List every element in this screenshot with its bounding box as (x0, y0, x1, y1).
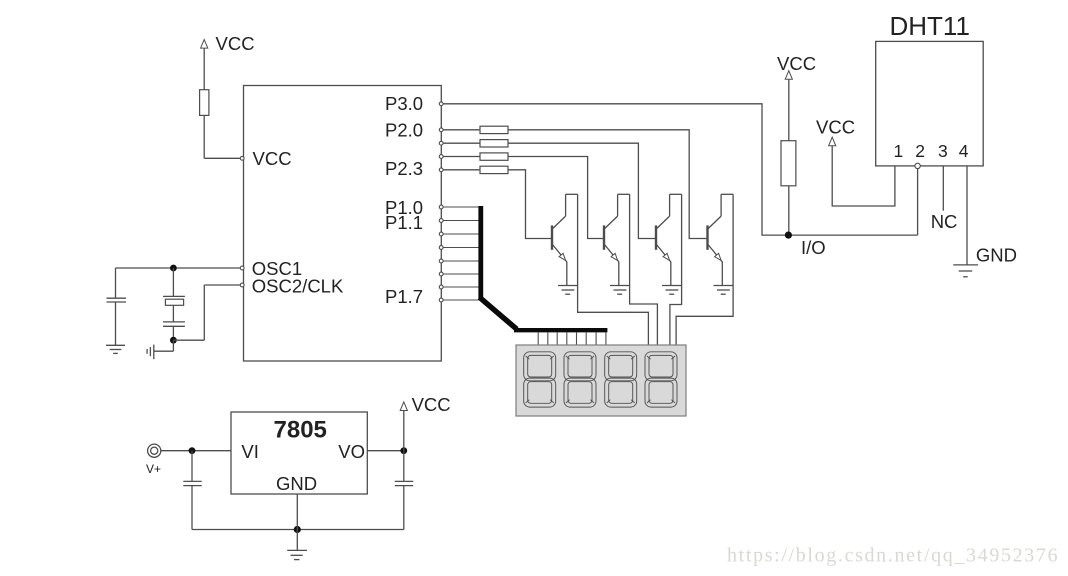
svg-text:4: 4 (959, 141, 969, 161)
svg-text:P2.0: P2.0 (385, 119, 423, 140)
svg-text:DHT11: DHT11 (890, 11, 970, 41)
svg-text:VO: VO (338, 441, 365, 462)
svg-text:P3.0: P3.0 (385, 93, 423, 114)
svg-text:VCC: VCC (816, 116, 855, 137)
svg-text:1: 1 (894, 141, 904, 161)
svg-text:P1.1: P1.1 (385, 212, 423, 233)
svg-text:2: 2 (915, 141, 925, 161)
svg-text:GND: GND (976, 245, 1017, 266)
svg-text:P1.7: P1.7 (385, 286, 423, 307)
svg-text:VCC: VCC (412, 394, 451, 415)
svg-text:7805: 7805 (274, 417, 327, 444)
svg-text:GND: GND (276, 473, 317, 494)
svg-text:P2.3: P2.3 (385, 158, 423, 179)
svg-text:NC: NC (931, 211, 958, 232)
svg-text:VCC: VCC (777, 53, 816, 74)
svg-text:https://blog.csdn.net/qq_34952: https://blog.csdn.net/qq_34952376 (727, 545, 1059, 567)
svg-text:OSC2/CLK: OSC2/CLK (252, 275, 344, 296)
svg-text:I/O: I/O (801, 237, 826, 258)
svg-text:3: 3 (938, 141, 948, 161)
svg-text:VCC: VCC (253, 148, 292, 169)
svg-text:VI: VI (241, 441, 258, 462)
svg-text:VCC: VCC (216, 33, 255, 54)
svg-text:V+: V+ (146, 462, 161, 476)
